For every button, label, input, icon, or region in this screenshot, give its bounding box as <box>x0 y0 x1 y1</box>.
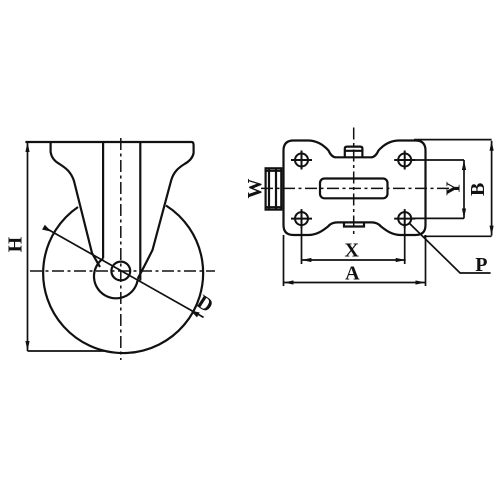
svg-text:P: P <box>475 254 487 276</box>
svg-text:H: H <box>4 236 26 252</box>
svg-text:B: B <box>467 183 489 196</box>
svg-text:W: W <box>244 179 266 199</box>
svg-text:X: X <box>344 240 359 262</box>
svg-text:Y: Y <box>442 181 464 196</box>
svg-text:A: A <box>345 263 360 285</box>
